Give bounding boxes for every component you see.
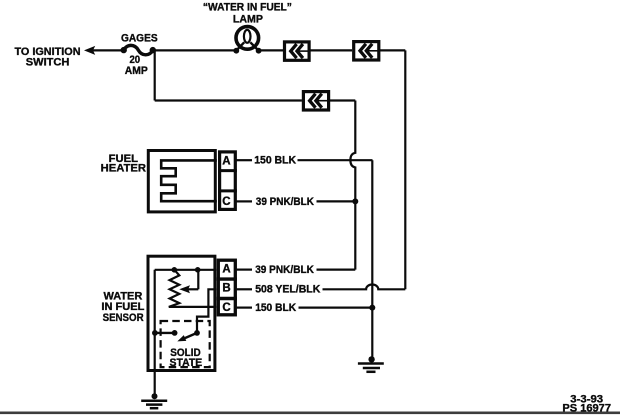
arrow to ignition switch: [84, 46, 95, 55]
ground left: [141, 393, 167, 408]
bottom rule: [0, 412, 620, 415]
svg-text:LAMP: LAMP: [233, 13, 263, 25]
connector 1: [285, 42, 310, 60]
svg-text:150 BLK: 150 BLK: [254, 155, 296, 167]
svg-text:C: C: [222, 302, 230, 314]
switch solid state: [152, 330, 200, 341]
label 20 AMP: [125, 54, 148, 77]
svg-text:39 PNK/BLK: 39 PNK/BLK: [256, 196, 314, 208]
sensor internal left wire to ground: [154, 270, 156, 397]
svg-text:GAGES: GAGES: [121, 33, 158, 45]
wire right vertical to 508 line: [404, 50, 406, 289]
junction dot 39 PNK/BLK heater: [352, 198, 358, 204]
wire fuse to lamp: [153, 49, 237, 51]
wire sensor B 508 YEL/BLK with hop: [237, 285, 406, 290]
heater terminal column: [218, 152, 237, 210]
wire heater C 39 PNK/BLK: [236, 200, 355, 202]
svg-text:A: A: [222, 263, 230, 275]
wire branch down from fuse: [154, 50, 156, 100]
svg-text:A: A: [222, 155, 230, 167]
wire connector 3 to mid vertical: [329, 99, 356, 101]
wire heater A 150 BLK: [236, 159, 373, 161]
fuse GAGES 20 AMP: [121, 45, 157, 54]
wire mid vertical with hop over 150 BLK: [350, 101, 355, 270]
svg-text:STATE: STATE: [170, 357, 203, 369]
wire lamp to connector 1: [259, 49, 283, 51]
label SOLID STATE: [170, 347, 203, 369]
svg-text:39 PNK/BLK: 39 PNK/BLK: [255, 264, 314, 276]
lamp water in fuel: [233, 27, 261, 54]
junction dot resistor top: [172, 267, 178, 273]
wire connector 2 to right corner: [379, 49, 406, 51]
water in fuel sensor box: [148, 256, 215, 370]
wire sensor C 150 BLK: [237, 307, 373, 309]
svg-text:508 YEL/BLK: 508 YEL/BLK: [255, 283, 320, 295]
label "WATER IN FUEL" LAMP: [203, 2, 292, 26]
svg-text:SENSOR: SENSOR: [103, 312, 144, 324]
junction dot 150 BLK: [369, 305, 375, 311]
ground right: [358, 356, 384, 372]
wire sensor A 39 PNK/BLK: [237, 269, 356, 271]
svg-text:HEATER: HEATER: [101, 162, 146, 174]
resistor element: [169, 270, 217, 307]
label FUEL HEATER: [101, 153, 146, 174]
svg-text:150 BLK: 150 BLK: [255, 302, 296, 314]
solid state dashed box: [161, 321, 210, 367]
wire 150 BLK vertical to ground: [371, 160, 373, 359]
fuel heater box: [148, 151, 215, 212]
label WATER IN FUEL SENSOR: [101, 290, 144, 324]
wire arrow to fuse: [93, 49, 124, 51]
svg-text:B: B: [222, 283, 230, 295]
wire connector 1 to connector 2: [310, 49, 352, 51]
connector 3: [303, 92, 328, 110]
svg-text:C: C: [222, 196, 230, 208]
junction dot wiper top: [195, 267, 201, 273]
sensor terminal column: [217, 260, 237, 315]
wire lower branch to connector 3: [155, 99, 302, 101]
sensor internal top wire: [155, 269, 217, 271]
svg-text:AMP: AMP: [125, 65, 148, 77]
label TO IGNITION SWITCH: [14, 46, 80, 68]
svg-text:SWITCH: SWITCH: [26, 56, 70, 68]
svg-text:“WATER IN FUEL”: “WATER IN FUEL”: [203, 2, 292, 14]
wire sensor B internal: [197, 289, 216, 333]
connector 2: [354, 42, 379, 60]
heater element: [161, 160, 217, 201]
wiper arrow: [179, 270, 198, 294]
